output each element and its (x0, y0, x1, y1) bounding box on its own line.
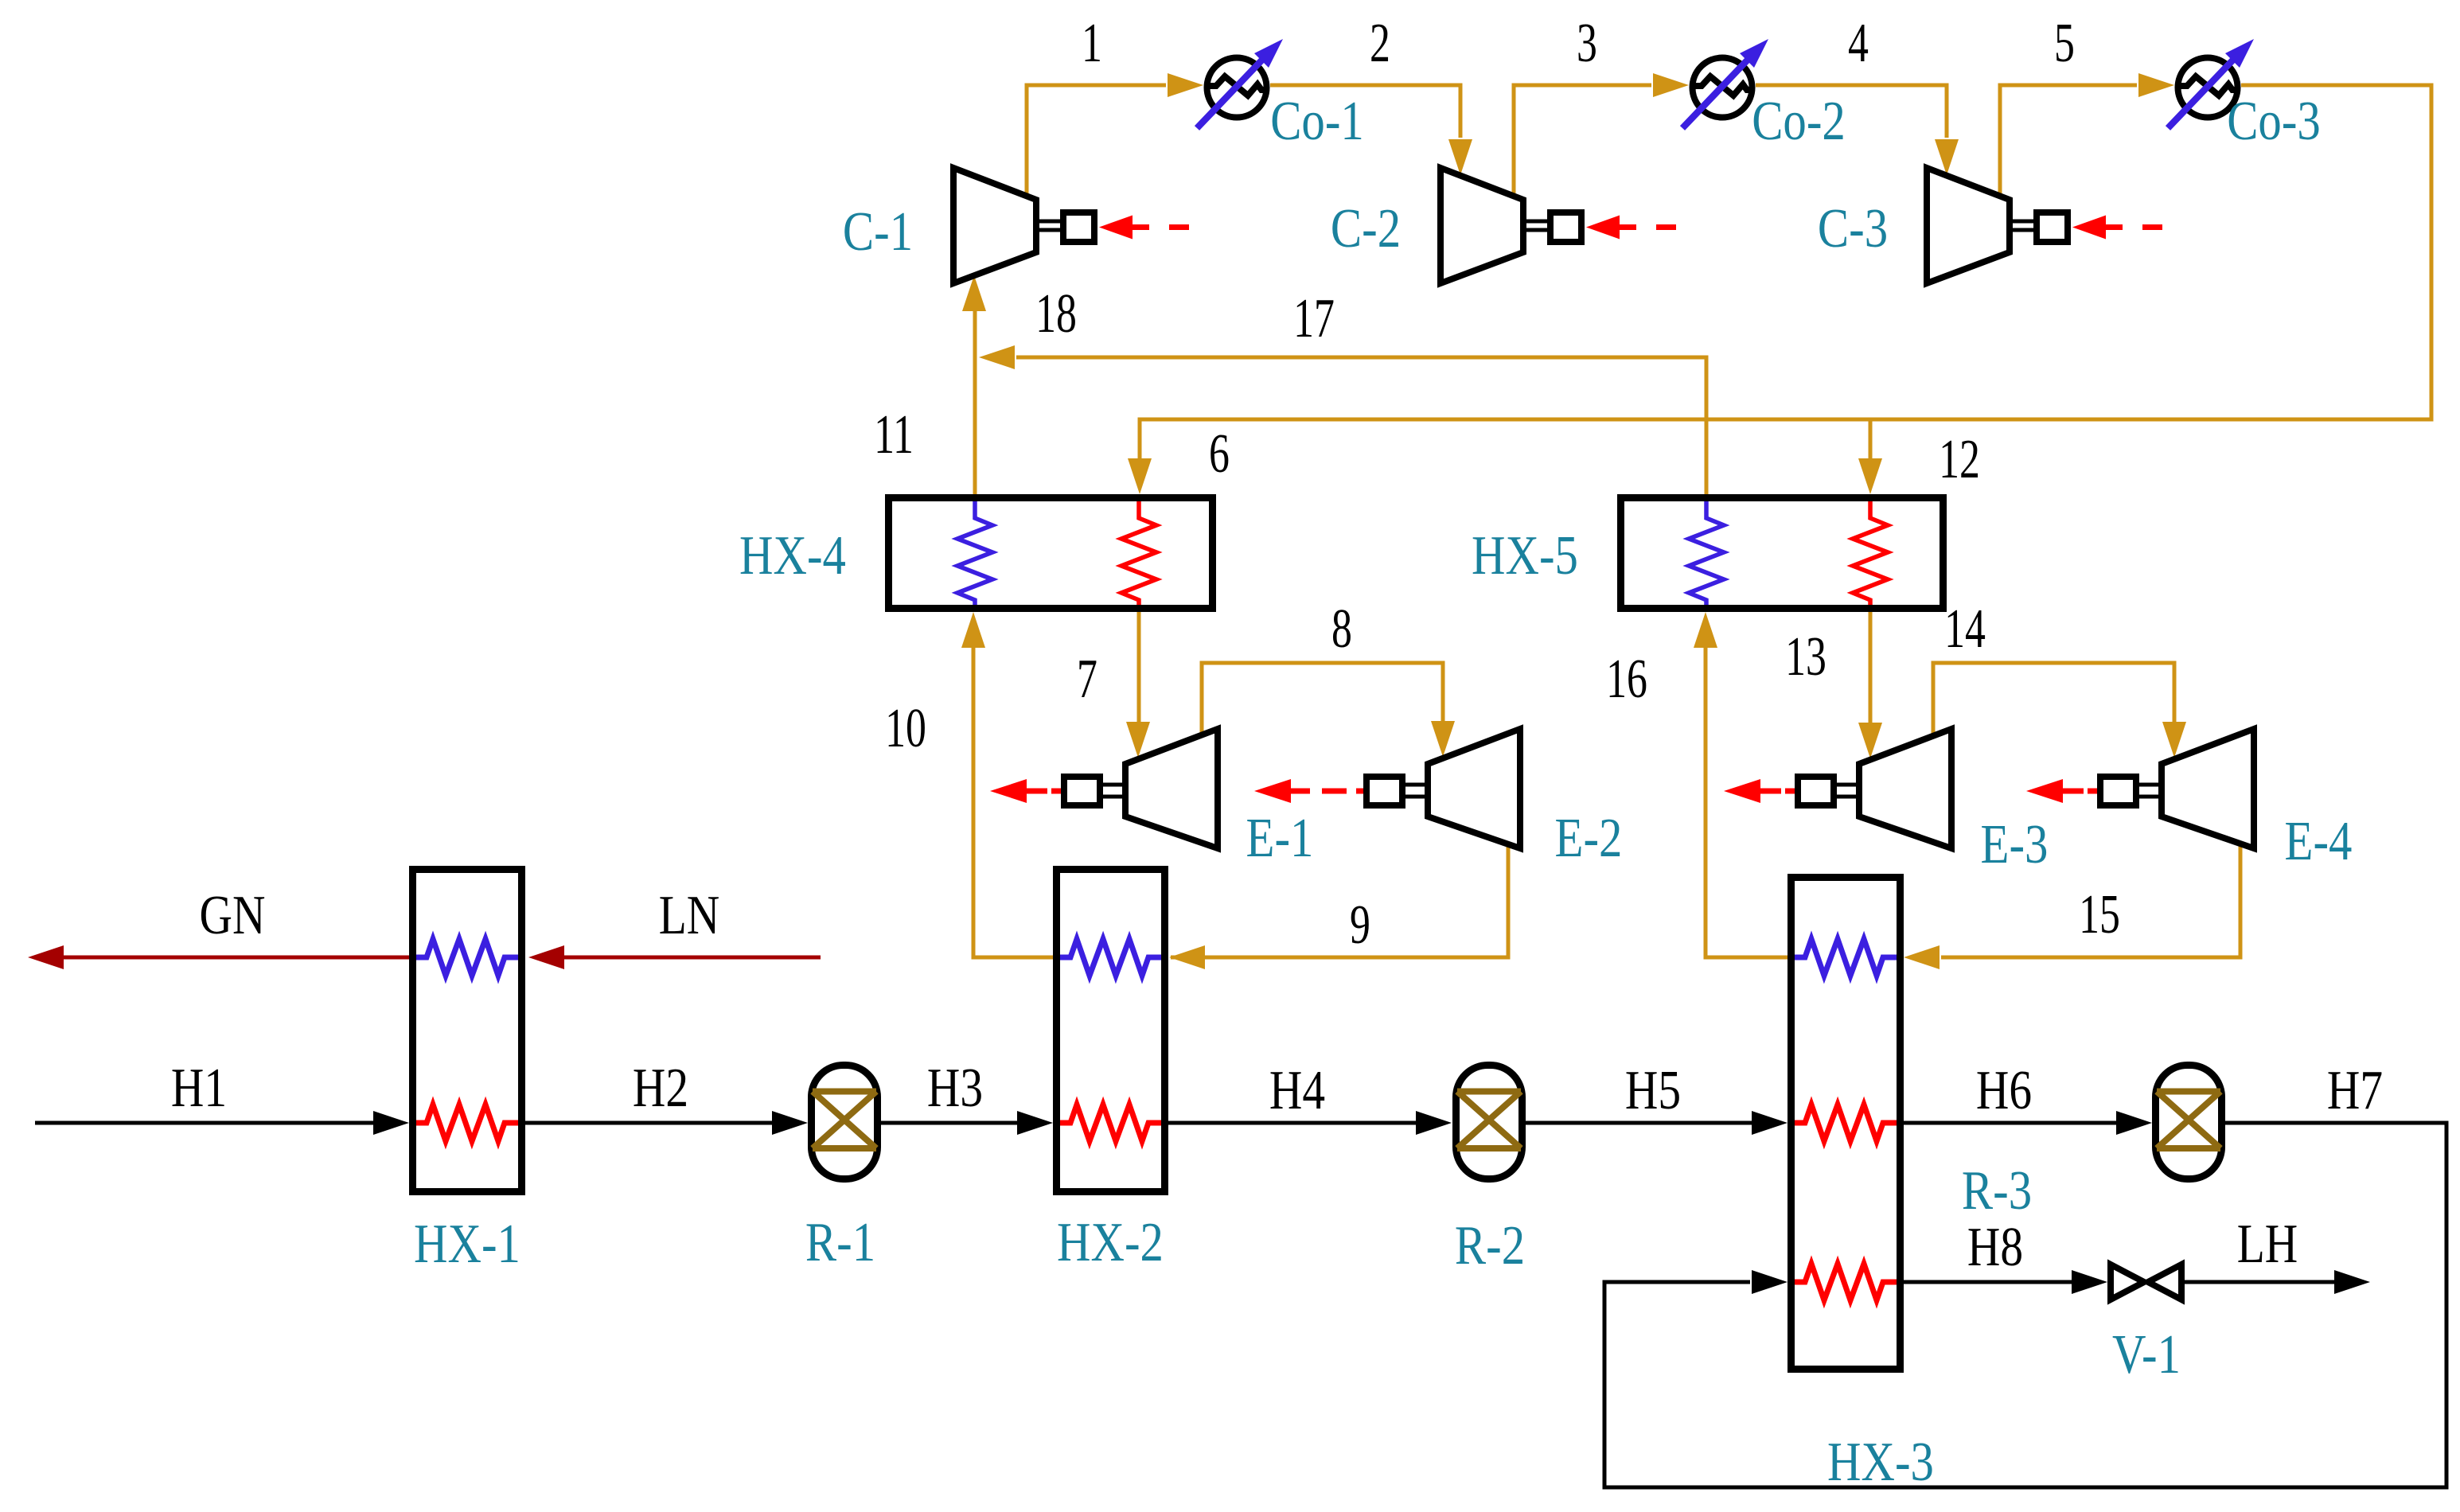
svg-text:11: 11 (874, 404, 914, 466)
svg-text:H7: H7 (2327, 1059, 2383, 1121)
svg-text:R-1: R-1 (805, 1210, 875, 1272)
svg-text:6: 6 (1209, 423, 1230, 485)
compressor C-1 (953, 168, 1189, 283)
svg-text:18: 18 (1035, 283, 1077, 345)
HX-1 hot coil (H1-H2) (416, 1105, 518, 1141)
heat exchanger HX-3 shell (1791, 878, 1901, 1370)
svg-text:E-4: E-4 (2285, 809, 2353, 871)
wire H3 (881, 1121, 1017, 1125)
compressor C-2 (1441, 168, 1676, 283)
HX-4 hot coil (streams 6-7) (1121, 501, 1156, 605)
wire H8 (1904, 1280, 2072, 1284)
svg-text:8: 8 (1331, 598, 1352, 660)
HX-3 cold coil (stream 15-16) (1795, 939, 1897, 976)
wire GN product line (62, 956, 409, 960)
svg-text:Co-1: Co-1 (1270, 89, 1364, 151)
wire stream 16 : HX-3 cold outlet up to HX-5 (1706, 646, 1787, 957)
wire H1 feed line (35, 1121, 373, 1125)
svg-text:4: 4 (1848, 13, 1869, 74)
wire stream 8 : E-1 outlet to E-2 inlet (1202, 663, 1443, 735)
svg-text:E-2: E-2 (1555, 806, 1623, 868)
wire LN feed line (564, 956, 821, 960)
heat exchanger HX-1 shell (413, 870, 522, 1192)
wire stream 13 : HX-5 hot outlet down to E-3 (1869, 612, 1873, 723)
svg-text:C-3: C-3 (1818, 197, 1888, 259)
svg-text:2: 2 (1370, 13, 1390, 74)
svg-text:17: 17 (1293, 288, 1335, 349)
reactor R-3 (2156, 1066, 2222, 1179)
svg-text:R-2: R-2 (1455, 1214, 1525, 1276)
cooler Co-2 (1682, 39, 1768, 128)
svg-text:16: 16 (1606, 649, 1647, 710)
compressor C-3 (1927, 168, 2162, 283)
svg-text:9: 9 (1350, 894, 1370, 956)
cooler Co-1 (1197, 39, 1283, 128)
svg-text:E-3: E-3 (1981, 813, 2049, 875)
svg-text:H3: H3 (927, 1057, 983, 1119)
svg-text:7: 7 (1077, 649, 1097, 710)
svg-text:5: 5 (2054, 13, 2075, 74)
svg-text:HX-4: HX-4 (739, 524, 846, 586)
expander E-1 (990, 729, 1218, 848)
wire stream 14 : E-3 outlet to E-4 inlet (1933, 663, 2174, 735)
wire LH product line (2185, 1280, 2334, 1284)
svg-text:Co-3: Co-3 (2227, 89, 2321, 151)
svg-text:R-3: R-3 (1962, 1159, 2032, 1221)
svg-text:E-1: E-1 (1246, 806, 1314, 868)
reactor R-1 (812, 1066, 878, 1179)
svg-text:15: 15 (2079, 884, 2120, 945)
wire stream 10 : HX-2 cold outlet up to HX-4 (973, 646, 1053, 957)
svg-text:1: 1 (1082, 13, 1102, 74)
heat exchanger HX-4 shell (889, 498, 1213, 609)
svg-text:HX-3: HX-3 (1827, 1430, 1934, 1492)
svg-text:H6: H6 (1976, 1059, 2032, 1121)
wire H6 (1904, 1121, 2116, 1125)
HX-2 cold coil (stream 9-10) (1060, 939, 1161, 976)
wire stream 17 : HX-5 cold outlet to junction (1016, 357, 1706, 494)
svg-text:LN: LN (659, 884, 720, 946)
HX-3 hot coil 2 (H7-H8) (1795, 1264, 1897, 1300)
svg-text:H5: H5 (1625, 1059, 1681, 1121)
HX-5 hot coil (streams 12-13) (1853, 501, 1888, 605)
svg-text:HX-2: HX-2 (1057, 1210, 1164, 1272)
svg-text:3: 3 (1577, 13, 1597, 74)
HX-2 hot coil (H3-H4) (1060, 1105, 1161, 1141)
wire H7 recycle loop (1604, 1123, 2446, 1487)
svg-text:14: 14 (1944, 598, 1986, 660)
wire stream 9 : E-2 outlet to HX-2 cold coil (1171, 843, 1508, 957)
svg-text:GN: GN (200, 884, 266, 946)
svg-text:Co-2: Co-2 (1752, 89, 1846, 151)
wire stream 2 : Co-1 to C-2 inlet (1270, 85, 1460, 138)
svg-text:LH: LH (2237, 1213, 2298, 1275)
svg-text:10: 10 (885, 698, 926, 759)
svg-text:13: 13 (1785, 626, 1826, 688)
valve V-1 (2111, 1265, 2181, 1300)
svg-text:HX-1: HX-1 (414, 1212, 520, 1274)
svg-text:V-1: V-1 (2112, 1323, 2181, 1385)
expander E-2 (1254, 729, 1520, 848)
svg-text:H4: H4 (1269, 1059, 1325, 1121)
wire stream 5 : C-3 outlet to Co-3 (2000, 85, 2137, 197)
svg-text:H2: H2 (633, 1057, 688, 1119)
wire stream 7 : HX-4 hot outlet down to E-1 (1137, 612, 1141, 722)
wire stream 3 : C-2 outlet to Co-2 (1514, 85, 1651, 197)
svg-text:C-1: C-1 (843, 200, 913, 262)
HX-5 cold coil (streams 16-17) (1689, 501, 1724, 605)
HX-1 cold coil (LN-GN) (416, 939, 518, 976)
expander E-4 (2026, 729, 2254, 848)
reactor R-2 (1456, 1066, 1522, 1179)
wire H2 (525, 1121, 772, 1125)
svg-text:H1: H1 (171, 1057, 227, 1119)
HX-4 cold coil (stream 11) (957, 501, 992, 605)
svg-text:H8: H8 (1967, 1216, 2023, 1278)
svg-text:HX-5: HX-5 (1472, 524, 1578, 586)
wire stream 1 : C-1 outlet to Co-1 (1027, 85, 1166, 197)
expander E-3 (1724, 729, 1951, 848)
wire stream 15 : E-4 outlet to HX-3 cold coil (1941, 843, 2240, 957)
HX-3 hot coil 1 (H5-H6) (1795, 1105, 1897, 1141)
svg-text:12: 12 (1939, 429, 1980, 490)
heat exchanger HX-2 shell (1057, 870, 1165, 1192)
wire stream 4 : Co-2 to C-3 inlet (1756, 85, 1947, 138)
wire streams 11/18 : HX-4 cold outlet up to C-1 suction (973, 310, 977, 494)
svg-text:C-2: C-2 (1331, 197, 1401, 259)
heat exchanger HX-5 shell (1621, 498, 1943, 609)
wire H4 (1168, 1121, 1416, 1125)
cooler Co-3 (2168, 39, 2254, 128)
wire H5 (1526, 1121, 1752, 1125)
wire stream 6 : Co-3 return line to HX-4 hot coil (1140, 85, 2431, 460)
wire stream 12 : branch to HX-5 hot coil (1869, 419, 1873, 460)
